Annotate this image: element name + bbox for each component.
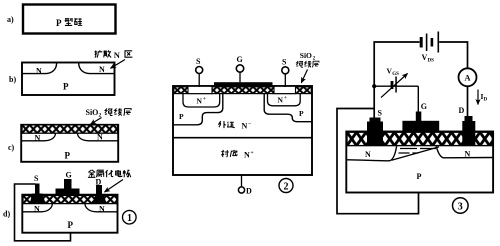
- svg-text:N: N: [97, 133, 103, 142]
- svg-text:N: N: [465, 150, 471, 159]
- svg-text:S: S: [34, 174, 39, 183]
- svg-text:P: P: [299, 109, 304, 118]
- svg-text:1: 1: [127, 213, 132, 224]
- svg-text:N: N: [114, 50, 121, 60]
- svg-text:N: N: [242, 121, 248, 130]
- svg-text:3: 3: [458, 202, 463, 213]
- svg-text:D: D: [96, 178, 102, 187]
- svg-text:GS: GS: [392, 72, 399, 77]
- svg-text:d): d): [3, 210, 10, 219]
- svg-text:N: N: [278, 96, 284, 105]
- svg-text:P: P: [63, 82, 69, 92]
- svg-text:+: +: [251, 150, 254, 156]
- svg-text:+: +: [284, 96, 287, 101]
- svg-text:P: P: [417, 172, 422, 181]
- svg-text:N: N: [99, 205, 105, 214]
- svg-text:D: D: [484, 98, 488, 103]
- svg-text:N: N: [197, 97, 203, 106]
- svg-text:G: G: [237, 55, 243, 64]
- svg-text:P: P: [179, 112, 184, 121]
- svg-text:N: N: [244, 150, 250, 159]
- svg-text:b): b): [9, 75, 16, 84]
- svg-text:P: P: [56, 18, 62, 28]
- svg-text:+: +: [203, 97, 206, 102]
- svg-text:D: D: [459, 106, 465, 115]
- svg-text:a): a): [7, 15, 14, 24]
- svg-text:SiO: SiO: [300, 51, 312, 60]
- svg-text:SiO: SiO: [86, 108, 99, 117]
- svg-text:G: G: [66, 171, 72, 180]
- svg-text:P: P: [68, 220, 74, 230]
- svg-text:−: −: [248, 121, 251, 127]
- svg-text:P: P: [65, 151, 71, 161]
- svg-text:D: D: [246, 187, 252, 196]
- svg-text:N: N: [36, 67, 42, 76]
- svg-text:S: S: [282, 58, 287, 67]
- svg-text:G: G: [421, 102, 427, 111]
- svg-text:N: N: [365, 150, 371, 159]
- svg-text:N: N: [99, 65, 105, 74]
- svg-text:c): c): [8, 143, 15, 152]
- svg-text:N: N: [34, 205, 40, 214]
- svg-text:S: S: [378, 109, 383, 118]
- svg-text:S: S: [196, 57, 201, 66]
- svg-text:A: A: [464, 73, 471, 83]
- svg-text:2: 2: [284, 181, 289, 192]
- svg-text:N: N: [35, 134, 41, 143]
- svg-text:DS: DS: [428, 59, 435, 64]
